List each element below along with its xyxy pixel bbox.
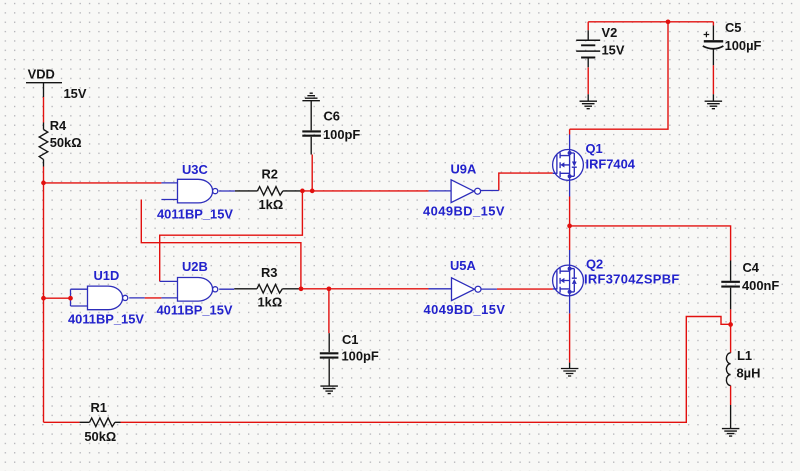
svg-text:VDD: VDD	[28, 66, 55, 81]
svg-text:U3C: U3C	[182, 162, 208, 177]
svg-text:V2: V2	[602, 25, 618, 40]
svg-text:Q2: Q2	[586, 256, 603, 271]
svg-text:4011BP_15V: 4011BP_15V	[157, 207, 233, 222]
svg-text:100pF: 100pF	[342, 349, 379, 364]
svg-text:4011BP_15V: 4011BP_15V	[68, 311, 144, 326]
svg-text:R1: R1	[91, 400, 107, 415]
svg-text:C5: C5	[725, 20, 741, 35]
svg-text:R3: R3	[261, 265, 277, 280]
svg-text:15V: 15V	[602, 43, 625, 58]
svg-text:400nF: 400nF	[742, 278, 779, 293]
svg-text:U1D: U1D	[94, 268, 120, 283]
svg-text:IRF3704ZSPBF: IRF3704ZSPBF	[584, 271, 680, 286]
svg-text:15V: 15V	[64, 86, 87, 101]
svg-text:1kΩ: 1kΩ	[258, 294, 283, 309]
svg-text:4049BD_15V: 4049BD_15V	[424, 302, 506, 317]
svg-text:C4: C4	[743, 260, 760, 275]
svg-text:C6: C6	[324, 109, 340, 124]
svg-text:L1: L1	[737, 348, 752, 363]
svg-text:8µH: 8µH	[737, 366, 761, 381]
svg-text:U5A: U5A	[450, 258, 476, 273]
svg-text:U9A: U9A	[451, 161, 477, 176]
svg-text:4049BD_15V: 4049BD_15V	[423, 203, 505, 218]
svg-text:50kΩ: 50kΩ	[84, 429, 116, 444]
svg-text:100µF: 100µF	[725, 38, 762, 53]
svg-text:50kΩ: 50kΩ	[50, 135, 82, 150]
svg-text:R2: R2	[262, 166, 278, 181]
svg-text:IRF7404: IRF7404	[586, 157, 636, 172]
svg-text:4011BP_15V: 4011BP_15V	[157, 302, 233, 317]
svg-text:Q1: Q1	[586, 141, 603, 156]
svg-text:C1: C1	[342, 332, 358, 347]
svg-text:1kΩ: 1kΩ	[259, 197, 284, 212]
svg-text:100pF: 100pF	[323, 127, 360, 142]
svg-text:R4: R4	[50, 118, 67, 133]
svg-text:U2B: U2B	[182, 259, 208, 274]
